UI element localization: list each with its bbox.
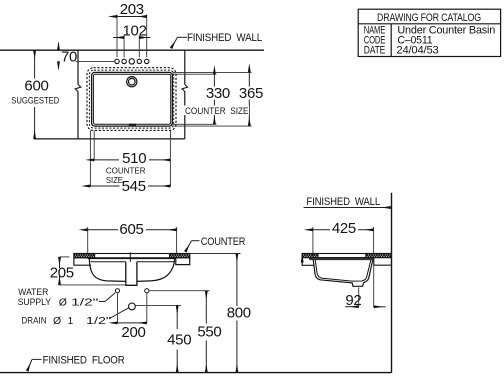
label FINISHED FLOOR with leader xyxy=(27,355,125,372)
dimension 600 SUGGESTED xyxy=(11,50,59,139)
dimension 800 xyxy=(227,254,251,373)
drain circle xyxy=(129,303,136,310)
dimension 200 xyxy=(118,293,147,341)
title block column divider xyxy=(390,24,392,57)
faucet hole 3 xyxy=(129,59,134,64)
dimension 450 xyxy=(167,305,191,372)
bowl outline inner (side) xyxy=(315,260,371,282)
dimension 510 COUNTER SIZE xyxy=(90,131,170,187)
faucet hole 2 xyxy=(122,59,126,63)
svg-text:605: 605 xyxy=(119,221,143,238)
dimension 203 xyxy=(117,1,147,57)
svg-text:200: 200 xyxy=(121,324,145,341)
label DRAIN with leader xyxy=(22,308,129,327)
counter edge build-down right (front) xyxy=(176,258,190,265)
label FINISHED WALL (top) with leader xyxy=(171,32,262,48)
basin outer rim dashed (plan) xyxy=(87,68,176,131)
bowl outline outer (side) xyxy=(313,260,373,287)
small arrow on counter edge (side) xyxy=(301,259,303,263)
wall line (finished wall, plan) xyxy=(0,49,264,51)
label COUNTER SIZE (plan right) xyxy=(184,106,249,117)
label FINISHED WALL (side) xyxy=(304,196,391,208)
svg-text:SUPPLY: SUPPLY xyxy=(18,297,51,307)
faucet circle (plan) outer xyxy=(127,77,137,87)
dimension 605 xyxy=(88,221,177,253)
supply to 550 extension line xyxy=(149,290,209,292)
dimension 102 xyxy=(113,22,150,57)
counter right edge (plan) xyxy=(184,50,186,84)
svg-text:203: 203 xyxy=(120,1,144,18)
svg-text:425: 425 xyxy=(332,220,356,237)
dimension 545 xyxy=(90,178,170,195)
svg-text:WATER: WATER xyxy=(18,287,48,297)
bowl outline (front) xyxy=(89,259,174,282)
svg-text:FINISHED WALL: FINISHED WALL xyxy=(187,32,262,44)
svg-text:COUNTER SIZE: COUNTER SIZE xyxy=(185,106,249,117)
dimension 365 xyxy=(239,72,263,126)
svg-text:Ø: Ø xyxy=(59,296,67,308)
counter front edge (plan bottom) xyxy=(34,138,185,140)
water supply circles xyxy=(115,289,119,293)
break symbol left xyxy=(75,85,81,92)
extension lines 330/365 xyxy=(171,72,252,126)
svg-text:DATE: DATE xyxy=(364,44,386,56)
dimension 92 xyxy=(345,292,385,309)
centreline tick (front) xyxy=(129,252,131,262)
counter edge build-down right (side) xyxy=(374,258,392,266)
svg-text:SIZE: SIZE xyxy=(106,175,123,185)
drain stub (front) xyxy=(126,262,137,286)
svg-text:24/04/53: 24/04/53 xyxy=(396,44,438,56)
svg-text:800: 800 xyxy=(227,305,251,322)
title block frame xyxy=(358,9,500,56)
title block header divider xyxy=(358,23,500,25)
label COUNTER SIZE (below 510) xyxy=(106,166,146,185)
dimension 425 xyxy=(313,220,374,258)
svg-text:600: 600 xyxy=(24,77,48,94)
svg-text:COUNTER: COUNTER xyxy=(201,236,246,248)
drain to 450 extension line xyxy=(136,304,181,306)
svg-text:FINISHED WALL: FINISHED WALL xyxy=(306,196,380,208)
label COUNTER with leader (front) xyxy=(185,236,245,252)
svg-text:205: 205 xyxy=(50,264,74,281)
counter section band (side) xyxy=(302,254,391,258)
break symbol right xyxy=(182,85,188,92)
label WATER SUPPLY with leader xyxy=(18,287,116,308)
basin rim lines (side) xyxy=(310,258,374,260)
svg-text:102: 102 xyxy=(123,22,147,39)
svg-text:545: 545 xyxy=(122,178,146,195)
finished floor line xyxy=(0,372,392,374)
svg-text:SUGGESTED: SUGGESTED xyxy=(11,95,59,105)
faucet hole 4 xyxy=(137,59,141,63)
svg-text:1/2": 1/2" xyxy=(71,296,99,308)
faucet hole 1 xyxy=(115,59,119,63)
svg-text:DRAIN: DRAIN xyxy=(22,316,47,326)
svg-text:70: 70 xyxy=(61,49,77,66)
svg-text:1/2": 1/2" xyxy=(86,315,111,327)
basin inner rim dashed (plan) xyxy=(89,70,173,128)
svg-text:330: 330 xyxy=(206,85,230,102)
counter edge build-down left (side) xyxy=(302,258,314,266)
dimension 70 xyxy=(59,43,78,69)
overflow slot mark xyxy=(129,124,136,127)
counter cut-out outer (plan) xyxy=(92,72,173,126)
dimension 330 xyxy=(205,74,232,124)
counter cut-out inner (plan) xyxy=(93,74,170,124)
dimension 550 xyxy=(197,291,221,373)
wall line (side) xyxy=(391,193,393,373)
basin rim line (front) xyxy=(88,258,177,260)
dimension 205 xyxy=(50,257,128,285)
svg-text:DRAWING FOR CATALOG: DRAWING FOR CATALOG xyxy=(377,12,481,24)
faucet hole centreline xyxy=(76,60,114,62)
svg-text:Ø: Ø xyxy=(53,315,61,327)
counter top extension to 800 dim xyxy=(190,253,241,255)
svg-text:1: 1 xyxy=(68,315,74,327)
svg-text:550: 550 xyxy=(197,323,221,340)
svg-text:450: 450 xyxy=(167,332,191,349)
92 extension from drain stub xyxy=(358,288,360,307)
faucet hole 5 xyxy=(145,59,149,63)
counter left edge (plan) xyxy=(77,50,79,84)
counter section band (front) xyxy=(74,254,190,258)
basin interior ledge line (front) xyxy=(91,261,126,263)
92 right extension xyxy=(373,265,375,307)
svg-text:365: 365 xyxy=(239,85,263,102)
faucet circle (plan) inner xyxy=(129,78,136,85)
svg-text:FINISHED FLOOR: FINISHED FLOOR xyxy=(43,355,125,367)
counter edge build-down left (front) xyxy=(74,258,91,265)
